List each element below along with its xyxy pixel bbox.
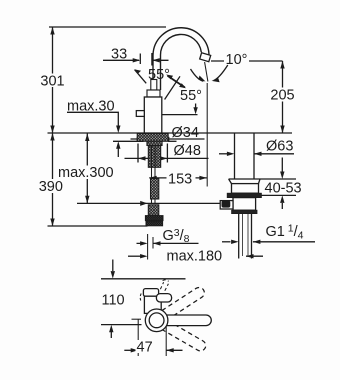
top view: swing arm dashed upper [157, 285, 206, 322]
dimension 47 right line [166, 349, 182, 351]
svg-text:max.180: max.180 [167, 249, 223, 265]
svg-text:205: 205 [270, 88, 294, 104]
dimension 390 line [52, 133, 54, 226]
dimension 40-53 label [264, 181, 304, 195]
dimension max.300 arrows [85, 134, 89, 204]
threaded stud upper hatched [151, 179, 159, 200]
under-deck line right [168, 140, 177, 142]
dimension 40-53 lower arrow [281, 203, 283, 209]
drain clamp ring dark [227, 193, 261, 197]
angle 55 right horizontal leg [154, 114, 197, 116]
angle 55 upper-left indicator arrow [135, 70, 147, 84]
threaded stud lower hatched [148, 205, 159, 216]
top view: bearing ring outer [145, 309, 168, 332]
dimension D48 line [125, 157, 209, 159]
dimension 205 arrows [280, 61, 284, 133]
dimension D48 extension lines [138, 144, 167, 163]
svg-text:Ø48: Ø48 [174, 143, 201, 159]
drain bottom ring dark [232, 210, 257, 213]
thread G3/8 arrows [137, 242, 199, 244]
svg-text:G3/8: G3/8 [163, 227, 190, 245]
svg-text:40-53: 40-53 [265, 181, 302, 197]
top view: dimension 110 upper boundary line [101, 278, 186, 280]
drain top cylinder [235, 133, 255, 179]
locknut 2 [146, 221, 163, 226]
drain tailpipe [239, 214, 252, 259]
escutcheon hatched [137, 134, 168, 142]
angle 55 right double arrow [168, 76, 185, 88]
spout outlet extension line [206, 83, 208, 187]
dimension max.300 label [57, 166, 116, 180]
svg-text:47: 47 [137, 340, 153, 356]
svg-text:153: 153 [168, 172, 192, 188]
dimension 33 line left [103, 59, 139, 61]
dimension 390 label [38, 179, 64, 193]
svg-text:max.300: max.300 [58, 165, 114, 181]
angle 10 leader line [211, 60, 283, 62]
dimension 205 label [269, 88, 296, 102]
dimension 33 line right [152, 59, 168, 61]
dimension D63 line left [219, 153, 231, 155]
svg-text:301: 301 [40, 74, 64, 90]
pull rod [152, 146, 156, 204]
dimension 47 extension lines [138, 320, 166, 357]
dimension D34 lines [131, 138, 205, 140]
dimension 47 left line [124, 349, 131, 351]
top view: spout arm solid [153, 315, 211, 326]
svg-text:390: 390 [39, 179, 63, 195]
drain side port [220, 201, 233, 209]
top view: left tick at ring [132, 318, 142, 320]
threaded shank hatched [148, 146, 160, 168]
top view: lever cap [143, 289, 158, 297]
drain flange body [232, 184, 259, 194]
pop-up rod ball joint [222, 201, 231, 208]
max.30 lower arrow [116, 141, 120, 149]
top view: lever knob [156, 294, 171, 302]
angle 10 arc left with arrow [191, 69, 204, 81]
svg-text:Ø34: Ø34 [172, 125, 199, 141]
drain lower boundary line [262, 194, 297, 196]
dimension 153 arrows [149, 176, 207, 180]
faucet lever dome [147, 90, 160, 97]
angle 55 upper-left label [147, 68, 175, 81]
svg-text:10°: 10° [226, 52, 248, 68]
faucet lever stem [151, 80, 157, 91]
angle 55 right arc arrow down [195, 104, 197, 112]
pop-up rod left clamp [140, 201, 147, 206]
dimension D48 label [171, 144, 207, 157]
svg-text:Ø63: Ø63 [266, 139, 293, 155]
dimension 301 line [52, 27, 54, 133]
pop-up rod horizontal [77, 202, 221, 204]
top view: swing arm dashed lower [158, 318, 208, 353]
top boundary extension line (spout top) [49, 26, 166, 28]
dimension D63 line right [254, 153, 294, 155]
drain flange taper [229, 179, 260, 184]
top view: lever dashed rotated position [160, 280, 168, 291]
dimension 110 lower boundary line [101, 324, 142, 326]
dimension 205 line [282, 61, 284, 133]
dimension max.300 line [86, 133, 88, 203]
drain body [233, 198, 256, 211]
under-deck line left [113, 140, 144, 142]
svg-text:G1 1/4: G1 1/4 [266, 223, 304, 242]
dimension 110 lower arrow [110, 332, 112, 338]
thread G1 1/4 arrows [222, 241, 231, 243]
svg-text:110: 110 [102, 293, 125, 309]
svg-text:55°: 55° [180, 88, 202, 104]
faucet left tab [136, 111, 144, 117]
dimension 33 extension lines [140, 53, 152, 66]
dimension 153 line [149, 177, 207, 179]
angle 55 right indicator tilted lever axis [165, 76, 180, 99]
max.30 upper arrow [116, 126, 120, 134]
drain tailpipe inner thread lines [243, 214, 249, 256]
spout outlet axis tilted [205, 62, 208, 82]
thread G1 1/4 leader line [253, 241, 315, 243]
dimension 40-53 upper arrow [281, 158, 283, 173]
dimension 301 label [40, 74, 65, 88]
dimension D34 arrows [137, 137, 170, 141]
dimension max.180 label [166, 249, 225, 263]
dimension 153 label [167, 172, 196, 186]
locknut 1 [145, 216, 163, 221]
faucet aerator [200, 53, 211, 62]
top view: small dashed swing arc left of cap [140, 294, 141, 302]
top view: bearing ring inner [149, 313, 164, 328]
dimension max.180 left line [128, 255, 141, 257]
top view: cartridge housing [144, 296, 161, 314]
dimension 47 label [136, 340, 156, 353]
dimension 110 upper arrow [112, 260, 114, 272]
thread G3/8 extension lines [148, 234, 153, 260]
dimension 390 arrows [50, 133, 54, 226]
faucet spout gooseneck inner arc [160, 34, 201, 55]
faucet body [144, 97, 162, 133]
390 bottom boundary line [48, 225, 148, 227]
mounting nut hatched [147, 141, 162, 145]
drain flange top line [229, 178, 296, 180]
faucet spout gooseneck outer arc [153, 28, 209, 57]
dimension 301 arrows [50, 27, 54, 133]
dimension D48 arrows [138, 156, 167, 160]
faucet spout neck tube [153, 55, 161, 90]
dimension max.180 right arrow [246, 255, 263, 257]
angle 10 arc right with arrow [214, 65, 228, 81]
deck line [48, 132, 293, 134]
